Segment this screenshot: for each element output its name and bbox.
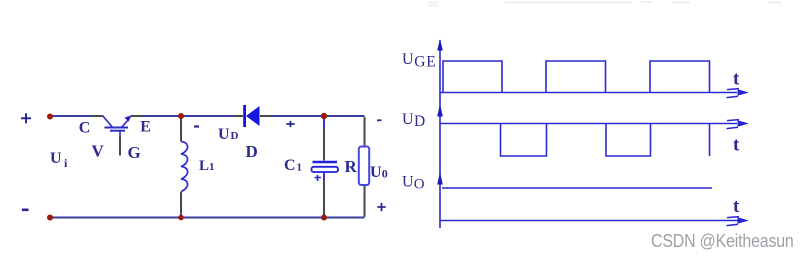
svg-text:1: 1 — [209, 161, 215, 173]
svg-text:D: D — [414, 113, 425, 130]
svg-text:U: U — [402, 51, 414, 68]
svg-text:C: C — [284, 157, 296, 174]
svg-text:R: R — [345, 157, 358, 176]
svg-text:U: U — [402, 174, 414, 191]
svg-text:t: t — [733, 69, 740, 90]
svg-text:D: D — [246, 142, 258, 161]
svg-text:U: U — [50, 150, 62, 167]
svg-text:t: t — [733, 196, 740, 217]
svg-text:L: L — [199, 158, 209, 174]
svg-text:C: C — [79, 120, 91, 137]
svg-text:U: U — [370, 164, 382, 181]
svg-text:D: D — [231, 130, 239, 142]
svg-text:t: t — [733, 135, 740, 156]
svg-text:E: E — [426, 54, 435, 71]
svg-text:G: G — [128, 143, 141, 162]
svg-text:G: G — [414, 53, 425, 70]
svg-text:O: O — [414, 177, 425, 193]
svg-text:U: U — [218, 126, 230, 143]
svg-text:i: i — [64, 156, 68, 170]
svg-text:U: U — [402, 111, 414, 128]
svg-text:E: E — [140, 119, 151, 136]
svg-text:1: 1 — [297, 162, 303, 174]
svg-text:V: V — [92, 142, 105, 161]
svg-text:0: 0 — [382, 167, 388, 181]
